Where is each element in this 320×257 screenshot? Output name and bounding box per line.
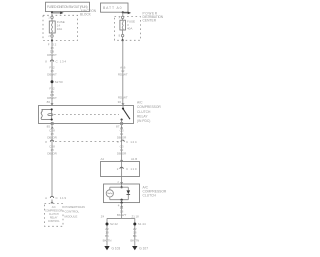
- wire label stack G1: [47, 129, 57, 156]
- wire PDC to relay switch: [122, 40, 124, 105]
- node JB exit: [51, 39, 53, 41]
- clutch bottom pin: [121, 200, 123, 203]
- svg-text:S2 50: S2 50: [55, 80, 63, 84]
- junction block dashed box: [43, 15, 78, 40]
- svg-text:DB/OR: DB/OR: [117, 135, 127, 139]
- svg-text:BK/TN: BK/TN: [130, 238, 139, 242]
- splice S250: [51, 80, 54, 83]
- source box FUSED IGN: [46, 2, 90, 11]
- wire label stack D: [118, 66, 128, 100]
- svg-text:CENTER: CENTER: [143, 19, 157, 23]
- svg-text:Z4: Z4: [101, 215, 105, 219]
- svg-text:COMPRESSOR: COMPRESSOR: [137, 105, 161, 109]
- relay box: [39, 106, 134, 124]
- relay link dashed: [54, 114, 119, 116]
- relay switch: [122, 106, 124, 109]
- pin PDC bottom: [122, 30, 124, 34]
- svg-text:Z1 18: Z1 18: [132, 215, 140, 219]
- svg-text:A1 B: A1 B: [131, 157, 137, 161]
- PCM pin function label: [45, 206, 63, 223]
- svg-text:30: 30: [118, 100, 122, 104]
- inline connector C134: [50, 60, 53, 62]
- PCM dashed box: [45, 204, 64, 227]
- svg-text:A/C: A/C: [137, 101, 143, 105]
- wire label stack B: [47, 66, 57, 77]
- ground wire labels left: [103, 227, 112, 242]
- svg-text:BK/WT: BK/WT: [117, 213, 127, 217]
- wire connector box to clutch: [121, 177, 123, 185]
- clutch internals: [121, 184, 123, 187]
- svg-text:DB/OR: DB/OR: [47, 135, 57, 139]
- wire relay switch to connector box: [121, 125, 123, 162]
- svg-text:G 103: G 103: [112, 247, 121, 251]
- A/C compressor clutch box: [104, 184, 140, 203]
- inline connector plane C124: [55, 141, 119, 143]
- wire JB to relay coil: [51, 41, 53, 106]
- svg-text:86: 86: [47, 100, 51, 104]
- PDC label: [143, 12, 164, 23]
- wire clutch to ground T: [121, 203, 123, 219]
- svg-text:MODULE: MODULE: [65, 214, 78, 218]
- svg-text:(IN PDC): (IN PDC): [137, 119, 150, 123]
- svg-text:G 107: G 107: [139, 247, 148, 251]
- svg-text:A: A: [45, 196, 47, 200]
- pin 87: [120, 122, 122, 124]
- node PDC exit: [122, 39, 124, 41]
- svg-text:C 119: C 119: [56, 196, 67, 200]
- svg-text:DB/OR: DB/OR: [117, 151, 127, 155]
- wire label stack E: [117, 129, 127, 156]
- ground G107: [132, 246, 137, 250]
- ground G103: [104, 246, 109, 250]
- node under BATT: [122, 11, 124, 13]
- svg-text:S1 44: S1 44: [138, 222, 146, 226]
- fuse F1: [49, 21, 55, 33]
- svg-text:RD/WT: RD/WT: [118, 96, 128, 100]
- wire label stack C: [47, 86, 57, 100]
- svg-text:DB/WT: DB/WT: [47, 53, 57, 57]
- clutch label: [143, 185, 167, 197]
- wire box1 to fuse1: [51, 12, 53, 16]
- clutch coil circle: [106, 190, 113, 197]
- source box BATT: [101, 3, 129, 12]
- flow arrow: [53, 12, 61, 14]
- svg-text:BATT A0: BATT A0: [103, 6, 122, 10]
- wire BATT to fuse2: [122, 12, 124, 16]
- wire through connector box: [121, 162, 123, 177]
- svg-text:S2 22: S2 22: [110, 222, 118, 226]
- PCM label: [65, 205, 85, 218]
- svg-text:BK/TN: BK/TN: [103, 238, 112, 242]
- relay label: [137, 101, 161, 123]
- node under source box: [51, 11, 53, 13]
- PDC dashed box: [115, 17, 141, 41]
- svg-text:RELAY: RELAY: [137, 114, 148, 118]
- svg-text:C 124: C 124: [126, 140, 137, 144]
- pin circle JB top: [51, 16, 53, 18]
- diode D1: [127, 187, 129, 190]
- splice S144: [133, 223, 136, 226]
- svg-text:DB/WT: DB/WT: [47, 73, 57, 77]
- svg-text:CLUTCH: CLUTCH: [143, 194, 157, 198]
- inline connector C110: [120, 167, 123, 169]
- svg-text:POWERTRAIN: POWERTRAIN: [65, 205, 85, 209]
- connector box: [101, 162, 140, 177]
- ground wire labels right: [130, 227, 139, 242]
- svg-text:DB/OR: DB/OR: [47, 151, 57, 155]
- svg-text:40A: 40A: [127, 26, 132, 30]
- relay coil: [41, 109, 53, 119]
- svg-text:C 134: C 134: [56, 60, 67, 64]
- splice S222: [106, 223, 109, 226]
- pin 85: [51, 122, 53, 124]
- ground T bar: [107, 217, 135, 219]
- svg-text:A4: A4: [101, 157, 105, 161]
- svg-text:CONTROL: CONTROL: [65, 210, 80, 214]
- svg-text:C 110: C 110: [126, 167, 137, 171]
- svg-text:CLUTCH: CLUTCH: [137, 110, 151, 114]
- PCM connector C119: [50, 196, 53, 198]
- svg-text:10A: 10A: [57, 27, 62, 31]
- svg-text:BLOCK: BLOCK: [80, 12, 92, 16]
- pin circle JB bottom: [51, 33, 53, 35]
- wire label stack A: [47, 43, 57, 58]
- wire relay coil to PCM: [51, 125, 53, 197]
- fuse F2: [120, 20, 126, 30]
- svg-text:CONTROL: CONTROL: [48, 220, 60, 223]
- svg-text:RD/WT: RD/WT: [118, 73, 128, 77]
